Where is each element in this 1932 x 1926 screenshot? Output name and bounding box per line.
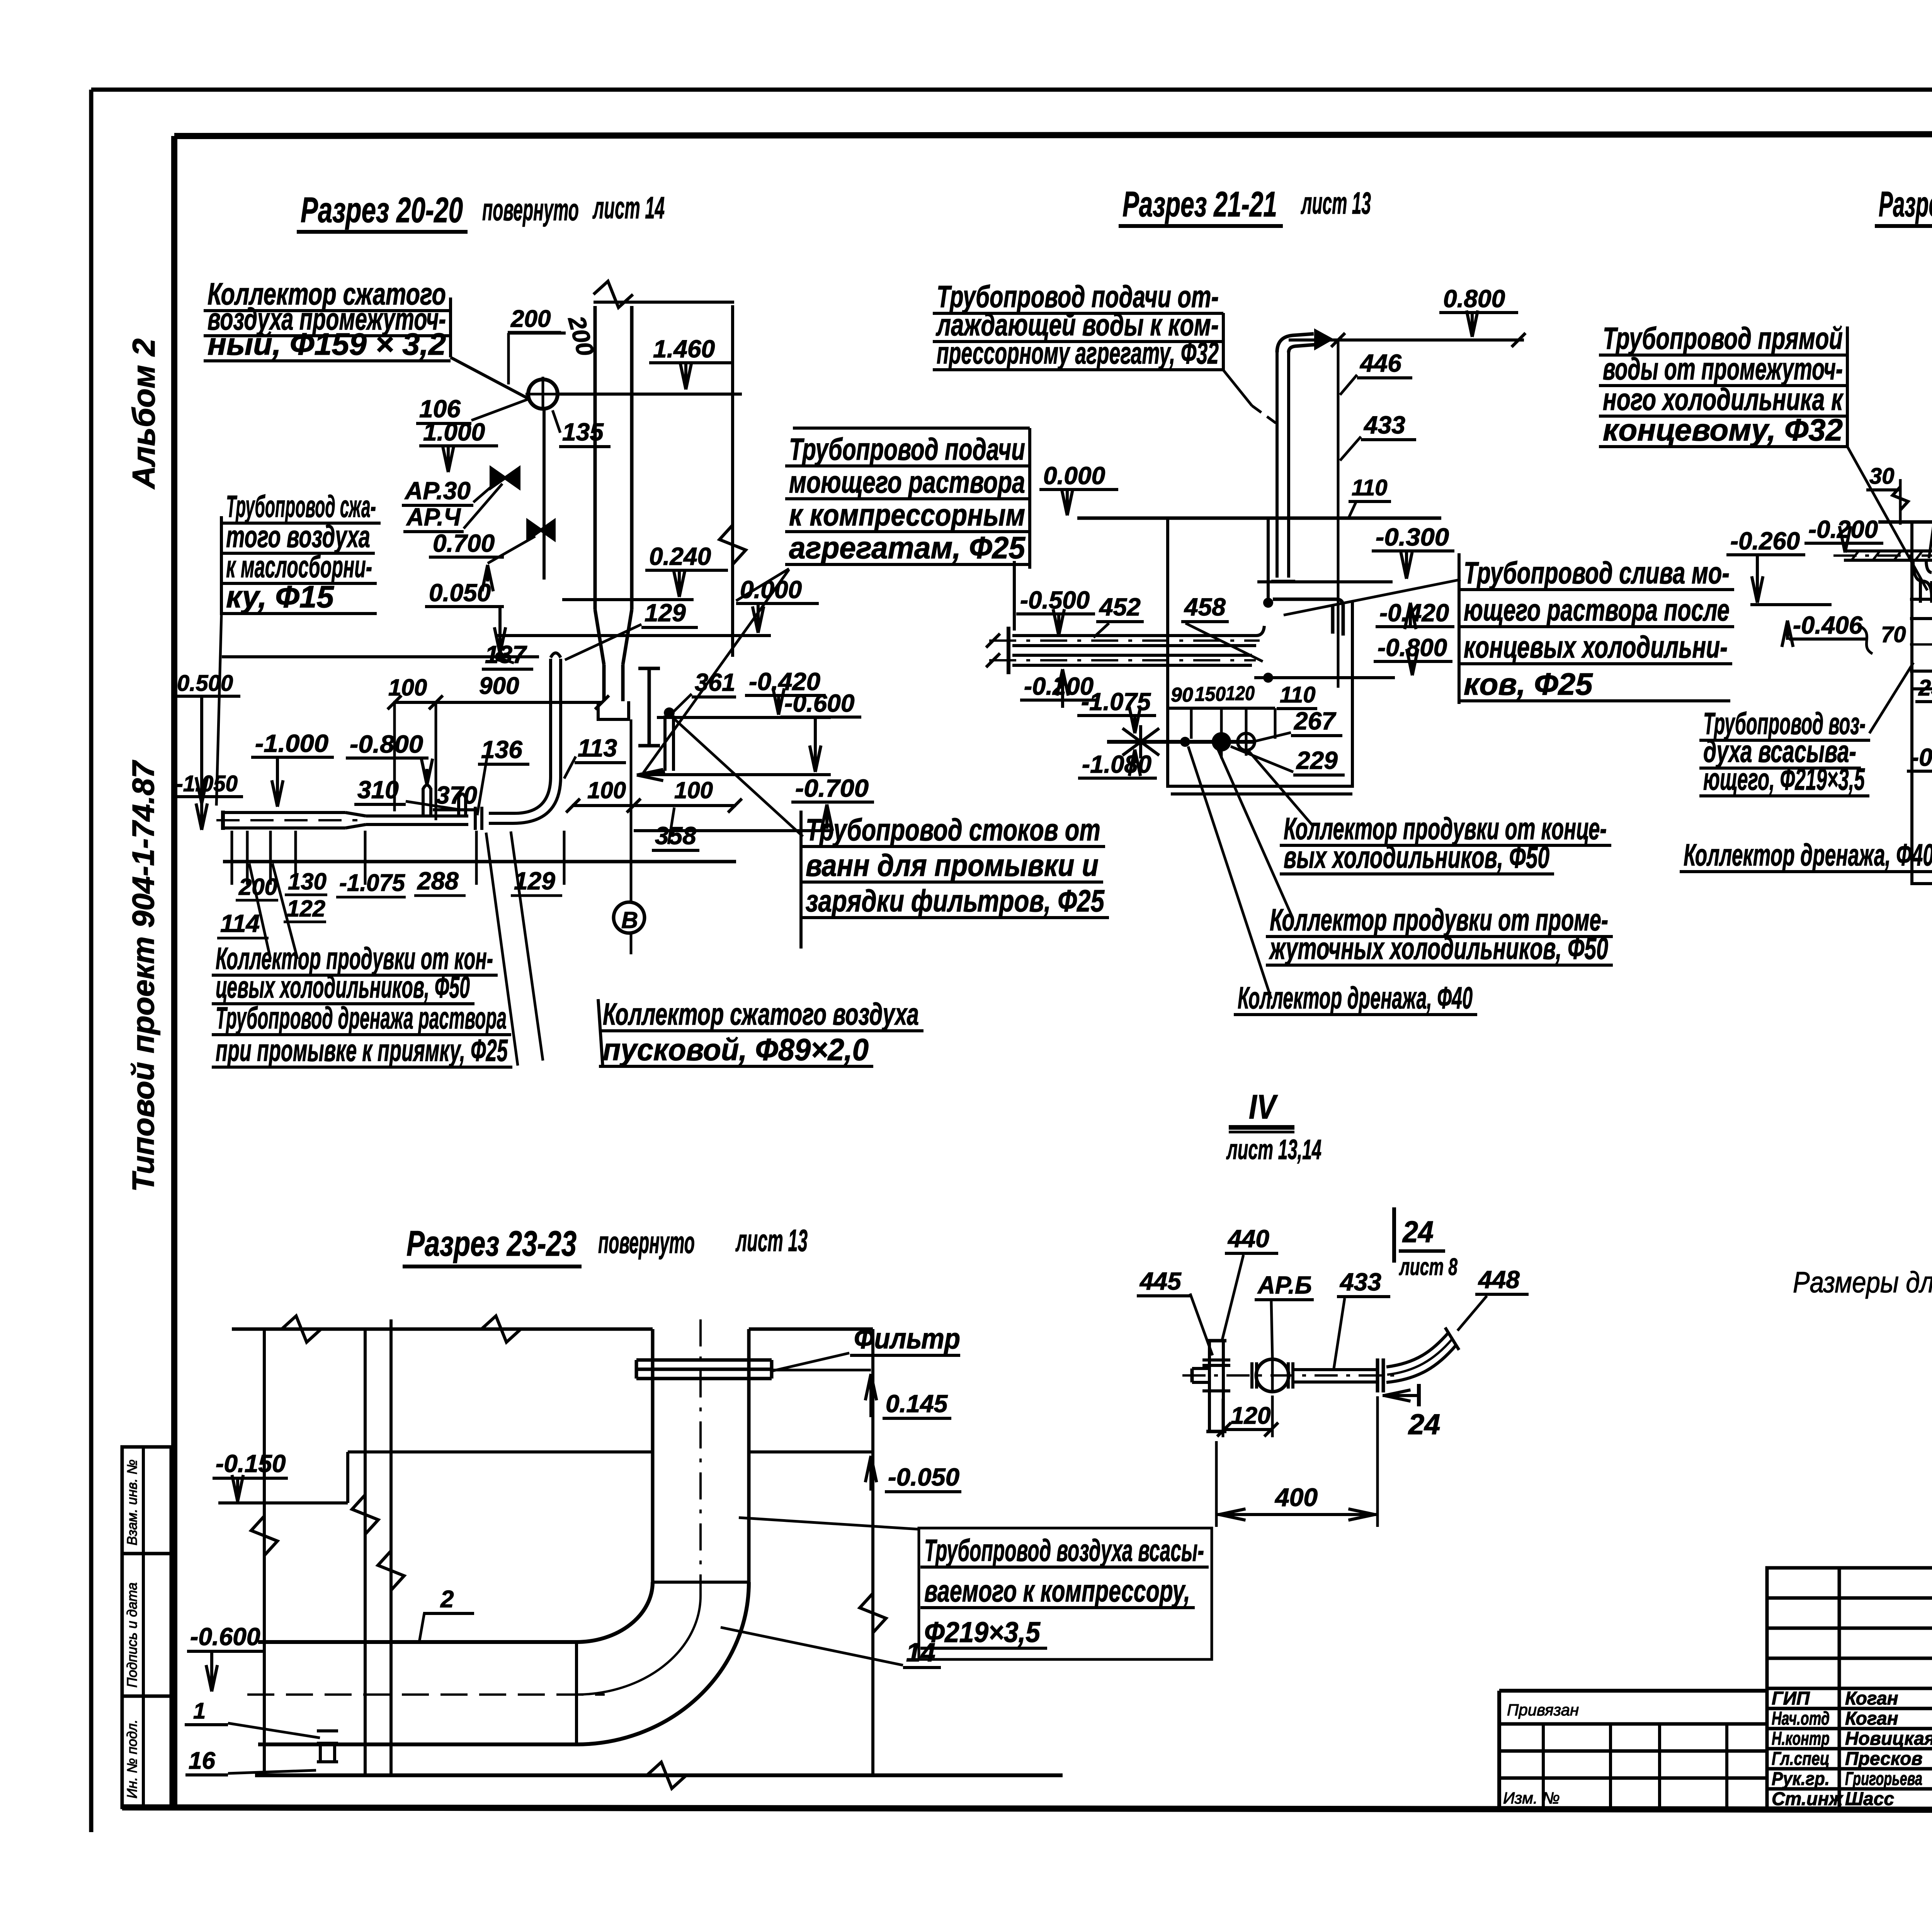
svg-text:-0.925: -0.925	[1911, 743, 1932, 771]
svg-text:Разрез 23-23: Разрез 23-23	[406, 1224, 577, 1263]
svg-text:Пресков: Пресков	[1845, 1749, 1922, 1769]
svg-text:при промывке к приямку, Ф25: при промывке к приямку, Ф25	[216, 1033, 508, 1068]
svg-text:1: 1	[193, 1698, 206, 1724]
svg-text:Типовой проект 904-1-74.87: Типовой проект 904-1-74.87	[126, 760, 160, 1192]
svg-text:ков, Ф25: ков, Ф25	[1464, 667, 1593, 701]
svg-text:446: 446	[1359, 349, 1401, 377]
svg-text:ющего, Ф219×3,5: ющего, Ф219×3,5	[1703, 762, 1865, 796]
svg-text:250: 250	[1918, 675, 1932, 700]
svg-text:0.050: 0.050	[429, 579, 491, 607]
svg-text:ющего раствора после: ющего раствора после	[1464, 593, 1730, 627]
svg-text:458: 458	[1184, 593, 1226, 621]
svg-text:-0.050: -0.050	[888, 1463, 959, 1491]
svg-text:24: 24	[1402, 1215, 1434, 1249]
svg-text:повернуто: повернуто	[598, 1225, 695, 1260]
svg-text:лист 14: лист 14	[592, 190, 665, 225]
svg-text:Трубопровод подачи: Трубопровод подачи	[789, 432, 1025, 466]
svg-text:жуточных холодильников, Ф50: жуточных холодильников, Ф50	[1269, 931, 1608, 966]
svg-text:концевому, Ф32: концевому, Ф32	[1603, 413, 1843, 447]
svg-text:зарядки фильтров, Ф25: зарядки фильтров, Ф25	[806, 884, 1105, 918]
svg-text:-0.800: -0.800	[1378, 634, 1447, 661]
svg-text:448: 448	[1478, 1266, 1520, 1294]
svg-text:358: 358	[655, 822, 696, 850]
svg-text:Коллектор сжатого воздуха: Коллектор сжатого воздуха	[603, 997, 919, 1031]
svg-text:лист 13: лист 13	[735, 1223, 808, 1258]
svg-text:пусковой, Ф89×2,0: пусковой, Ф89×2,0	[603, 1032, 869, 1067]
svg-text:Разрез 21-21: Разрез 21-21	[1122, 185, 1277, 224]
svg-text:122: 122	[287, 896, 325, 921]
svg-text:Рук.гр.: Рук.гр.	[1772, 1769, 1830, 1789]
svg-text:Н.контр: Н.контр	[1772, 1729, 1830, 1749]
svg-text:-0.600: -0.600	[784, 689, 854, 717]
svg-text:Гл.спец: Гл.спец	[1772, 1749, 1830, 1769]
svg-text:440: 440	[1227, 1225, 1269, 1253]
svg-text:агрегатам, Ф25: агрегатам, Ф25	[789, 530, 1026, 565]
svg-text:130: 130	[288, 869, 327, 894]
svg-text:-0.600: -0.600	[190, 1623, 260, 1651]
svg-text:Подпись и дата: Подпись и дата	[124, 1583, 140, 1688]
svg-text:120: 120	[1226, 682, 1255, 705]
svg-text:200: 200	[238, 874, 277, 900]
svg-text:лист 13,14: лист 13,14	[1226, 1134, 1321, 1165]
svg-text:моющего раствора: моющего раствора	[789, 465, 1025, 499]
svg-text:АР.Б: АР.Б	[1257, 1271, 1312, 1299]
svg-text:100: 100	[674, 777, 713, 803]
svg-text:288: 288	[417, 867, 459, 895]
svg-text:АР.Ч: АР.Ч	[406, 503, 461, 531]
svg-text:16: 16	[189, 1748, 215, 1774]
svg-text:ный, Ф159 × 3,2: ный, Ф159 × 3,2	[207, 327, 446, 361]
svg-text:к маслосборни-: к маслосборни-	[226, 549, 372, 584]
svg-text:-1.050: -1.050	[176, 771, 238, 796]
svg-text:Разрез 22-22: Разрез 22-22	[1879, 185, 1932, 224]
svg-text:452: 452	[1099, 593, 1141, 621]
svg-text:100: 100	[388, 675, 427, 700]
svg-text:Трубопровод слива мо-: Трубопровод слива мо-	[1464, 556, 1730, 590]
svg-text:113: 113	[578, 734, 617, 762]
svg-text:вых холодильников, Ф50: вых холодильников, Ф50	[1284, 840, 1549, 874]
svg-text:ванн для промывки и: ванн для промывки и	[806, 848, 1099, 882]
svg-text:433: 433	[1339, 1268, 1381, 1296]
svg-text:120: 120	[1231, 1402, 1270, 1429]
svg-text:106: 106	[419, 395, 461, 423]
svg-text:900: 900	[479, 673, 519, 699]
svg-text:Коган: Коган	[1845, 1688, 1898, 1709]
svg-text:445: 445	[1139, 1267, 1182, 1295]
svg-text:229: 229	[1296, 746, 1338, 774]
svg-text:Трубопровод стоков от: Трубопровод стоков от	[806, 813, 1100, 847]
svg-text:Коллектор дренажа, Ф40: Коллектор дренажа, Ф40	[1684, 838, 1932, 872]
svg-text:-0.500: -0.500	[1020, 586, 1090, 614]
svg-text:24: 24	[1408, 1408, 1440, 1440]
svg-text:0.500: 0.500	[177, 671, 233, 696]
svg-text:-0.260: -0.260	[1730, 527, 1800, 555]
svg-text:100: 100	[587, 777, 626, 803]
svg-text:110: 110	[1280, 682, 1315, 707]
svg-text:0.240: 0.240	[649, 542, 711, 570]
svg-text:267: 267	[1294, 707, 1337, 735]
svg-text:Трубопровод сжа-: Трубопровод сжа-	[226, 489, 376, 524]
svg-text:ГИП: ГИП	[1772, 1688, 1810, 1709]
svg-text:Размеры для справок: Размеры для справок	[1793, 1266, 1932, 1299]
svg-text:Изм. №: Изм. №	[1503, 1789, 1560, 1807]
svg-text:к компрессорным: к компрессорным	[789, 498, 1025, 532]
svg-text:Взам. инв. №: Взам. инв. №	[124, 1459, 140, 1545]
svg-text:Шасс: Шасс	[1845, 1789, 1894, 1809]
svg-text:ваемого к компрессору,: ваемого к компрессору,	[924, 1574, 1190, 1608]
svg-text:Григорьева: Григорьева	[1845, 1769, 1922, 1789]
svg-text:Привязан: Привязан	[1507, 1701, 1579, 1719]
svg-text:Коган: Коган	[1845, 1708, 1898, 1729]
svg-text:Трубопровод дренажа раствора: Трубопровод дренажа раствора	[216, 1001, 507, 1035]
svg-text:Трубопровод воздуха всасы-: Трубопровод воздуха всасы-	[924, 1533, 1204, 1567]
svg-text:Альбом 2: Альбом 2	[126, 338, 162, 490]
svg-text:0.700: 0.700	[433, 529, 495, 557]
svg-text:30: 30	[1869, 464, 1895, 489]
svg-text:0.000: 0.000	[1043, 462, 1105, 490]
svg-text:концевых холодильни-: концевых холодильни-	[1464, 630, 1728, 664]
svg-text:Ф219×3,5: Ф219×3,5	[924, 1616, 1041, 1648]
svg-text:129: 129	[645, 599, 686, 627]
svg-text:135: 135	[562, 418, 604, 446]
svg-text:0.800: 0.800	[1443, 285, 1505, 313]
svg-text:Новицкая: Новицкая	[1845, 1729, 1932, 1749]
svg-text:400: 400	[1274, 1483, 1318, 1511]
svg-text:433: 433	[1363, 411, 1405, 439]
svg-text:Трубопровод прямой: Трубопровод прямой	[1603, 321, 1843, 355]
svg-text:цевых холодильников, Ф50: цевых холодильников, Ф50	[216, 970, 470, 1004]
svg-text:Разрез 20-20: Разрез 20-20	[301, 190, 463, 230]
svg-text:310: 310	[357, 776, 399, 804]
svg-text:лист 8: лист 8	[1399, 1254, 1458, 1280]
svg-text:В: В	[621, 907, 638, 933]
svg-text:150: 150	[1195, 683, 1226, 705]
svg-text:1.460: 1.460	[653, 335, 715, 363]
svg-text:ного холодильника к: ного холодильника к	[1603, 382, 1844, 416]
svg-text:370: 370	[436, 781, 477, 809]
svg-text:ку, Ф15: ку, Ф15	[226, 580, 334, 614]
svg-text:110: 110	[1352, 475, 1387, 500]
svg-text:Нач.отд: Нач.отд	[1772, 1708, 1830, 1729]
svg-text:IV: IV	[1249, 1088, 1278, 1126]
svg-text:Коллектор дренажа, Ф40: Коллектор дренажа, Ф40	[1238, 981, 1473, 1015]
svg-text:-0.406: -0.406	[1793, 611, 1862, 639]
svg-text:137: 137	[485, 641, 527, 668]
svg-text:того воздуха: того воздуха	[226, 519, 370, 554]
svg-text:70: 70	[1881, 622, 1906, 647]
svg-text:воды от промежуточ-: воды от промежуточ-	[1603, 352, 1843, 386]
svg-text:-0.700: -0.700	[795, 774, 869, 802]
svg-text:-1.075: -1.075	[339, 870, 405, 896]
svg-text:2: 2	[440, 1586, 454, 1613]
svg-text:АР.30: АР.30	[404, 477, 471, 505]
svg-text:90: 90	[1171, 684, 1193, 706]
svg-text:-1.000: -1.000	[255, 729, 328, 757]
svg-text:-0.300: -0.300	[1376, 523, 1449, 551]
svg-text:Ст.инж: Ст.инж	[1772, 1789, 1844, 1809]
svg-text:Фильтр: Фильтр	[854, 1323, 960, 1355]
svg-text:лист 13: лист 13	[1301, 186, 1371, 220]
svg-text:200: 200	[510, 306, 551, 332]
svg-text:0.145: 0.145	[886, 1390, 948, 1418]
svg-text:-0.800: -0.800	[350, 730, 423, 758]
svg-text:повернуто: повернуто	[482, 192, 579, 227]
svg-text:Ин. № подл.: Ин. № подл.	[124, 1719, 140, 1799]
svg-text:-0.150: -0.150	[216, 1450, 286, 1477]
svg-text:114: 114	[220, 909, 260, 937]
svg-text:прессорному агрегату, Ф32: прессорному агрегату, Ф32	[937, 336, 1219, 370]
